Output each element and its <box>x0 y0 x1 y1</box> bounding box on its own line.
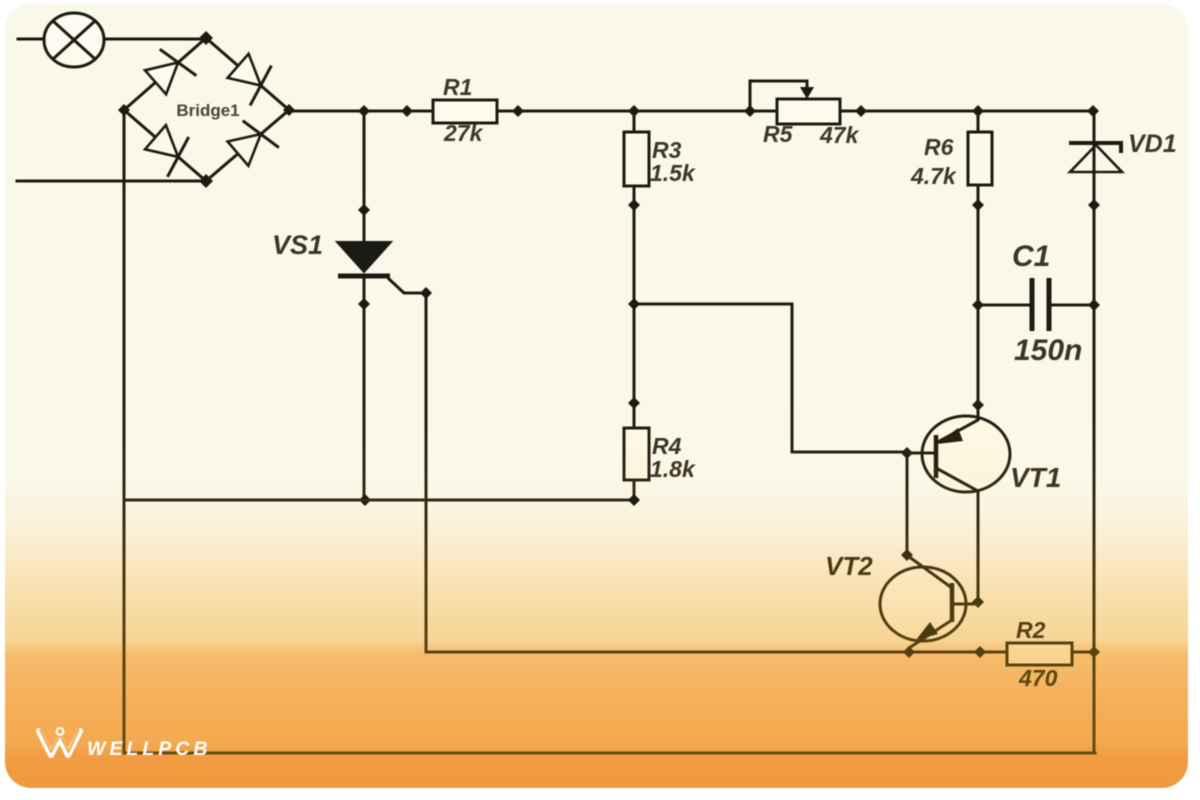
svg-text:VS1: VS1 <box>272 230 323 260</box>
wire VS1 gate <box>389 279 426 652</box>
wire gate rail to R2 <box>426 651 1007 654</box>
wire top rail segment 1 <box>289 110 433 113</box>
junction VS1 anode at top rail <box>358 105 370 117</box>
svg-text:VD1: VD1 <box>1128 130 1177 158</box>
junction R2 left pin <box>974 646 986 658</box>
wire bottom rail <box>124 752 1095 755</box>
svg-text:VT1: VT1 <box>1010 462 1061 493</box>
junction C1 left <box>972 299 984 311</box>
zener diode VD1 <box>1069 143 1122 172</box>
node bridge bottom <box>199 174 213 188</box>
svg-text:27k: 27k <box>443 120 484 146</box>
junction R6 top <box>972 105 984 117</box>
wire C1 right lead <box>1050 304 1094 307</box>
diode D4 (bridge bottom-right) <box>228 121 279 166</box>
junction VS1 gate corner <box>420 287 432 299</box>
wire R3 bottom to tap <box>633 186 636 428</box>
svg-text:Bridge1: Bridge1 <box>176 101 239 120</box>
junction VD1 anode <box>1088 199 1100 211</box>
wire R6 top lead <box>977 111 980 132</box>
transistor VT2 <box>880 556 978 652</box>
capacitor C1 <box>1032 278 1049 331</box>
node bridge right <box>283 104 295 116</box>
svg-text:R1: R1 <box>443 74 472 100</box>
junction VT2 base <box>972 596 984 608</box>
resistor R4 <box>624 428 649 480</box>
thyristor VS1 <box>337 242 391 276</box>
svg-text:47k: 47k <box>819 122 860 148</box>
diode D1 (bridge top-left) <box>145 49 196 94</box>
diode D3 (bridge bottom-left) <box>145 125 189 177</box>
junction R1 left pin <box>401 105 413 117</box>
wire lamp to bridge top node <box>104 38 206 41</box>
resistor R3 <box>624 132 649 186</box>
svg-text:150n: 150n <box>1014 334 1082 367</box>
wire VS1 anode <box>363 111 366 244</box>
resistor R6 <box>968 132 992 185</box>
potentiometer R5 <box>750 81 840 124</box>
svg-text:1.8k: 1.8k <box>650 456 696 482</box>
junction R4 top <box>628 397 640 409</box>
junction VT1 emitter top <box>972 399 984 411</box>
wire AC input bottom <box>17 180 206 183</box>
wire left rail <box>123 110 126 753</box>
svg-text:470: 470 <box>1018 665 1058 691</box>
junction R5 left pin <box>744 105 756 117</box>
node bridge top <box>199 31 213 45</box>
junction R6 bottom <box>972 199 984 211</box>
lamp EL1 <box>44 13 104 67</box>
wire mid rail <box>124 499 634 502</box>
svg-text:1.5k: 1.5k <box>650 160 696 186</box>
svg-text:R2: R2 <box>1016 617 1046 643</box>
logo WellPCB icon <box>39 728 80 755</box>
wire R4 bottom lead <box>633 480 636 500</box>
junction VS1 cathode <box>358 298 370 310</box>
junction R1 right pin <box>512 105 524 117</box>
junction divider tap <box>628 298 640 310</box>
junction top-right corner <box>1087 105 1099 117</box>
bridge rectifier Bridge1 diamond frame <box>124 38 289 181</box>
svg-text:R6: R6 <box>924 134 954 160</box>
wire R3 top lead <box>633 111 636 132</box>
svg-text:R5: R5 <box>763 121 794 147</box>
svg-text:WELLPCB: WELLPCB <box>87 738 211 760</box>
junction R3 top <box>628 105 640 117</box>
junction on VS1 anode <box>358 204 370 216</box>
junction R2 right at right rail <box>1088 646 1100 658</box>
wire VT1 base to VT2 collector <box>906 453 909 556</box>
wire top rail segment 2 <box>497 110 777 113</box>
svg-text:4.7k: 4.7k <box>910 163 957 189</box>
resistor R1 <box>433 100 497 123</box>
node bridge left <box>118 104 130 116</box>
svg-text:C1: C1 <box>1012 240 1050 273</box>
junction R4 bottom at mid rail <box>628 494 640 506</box>
wire right rail <box>1093 111 1096 753</box>
transistor VT1 <box>907 405 1010 602</box>
resistor R2 <box>1007 643 1072 665</box>
wire VS1 cathode <box>363 278 366 500</box>
wire divider tap to VT1 base <box>634 304 907 452</box>
junction C1 right <box>1088 299 1100 311</box>
junction VT1 base <box>901 447 913 459</box>
wire R2 right lead <box>1072 651 1094 654</box>
junction VT2 collector <box>901 549 913 561</box>
wire R6 bottom to VT1 emitter <box>977 185 980 406</box>
diode D2 (bridge top-right) <box>228 54 272 106</box>
wire C1 left lead <box>978 304 1031 307</box>
junction VS1 cathode at mid rail <box>359 494 371 506</box>
junction R5 right pin <box>855 105 867 117</box>
junction R3 bottom <box>628 199 640 211</box>
wire top rail segment 3 <box>840 110 1094 113</box>
junction VT2 emitter <box>903 646 915 658</box>
wire AC input top <box>18 38 46 41</box>
svg-text:VT2: VT2 <box>825 551 873 581</box>
